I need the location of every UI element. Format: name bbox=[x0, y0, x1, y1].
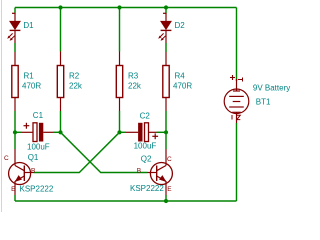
svg-text:C1: C1 bbox=[33, 111, 44, 120]
LED D1 bbox=[7, 13, 20, 43]
svg-text:470R: 470R bbox=[173, 81, 192, 90]
svg-text:BT1: BT1 bbox=[256, 98, 271, 107]
wire battery column bbox=[236, 8, 238, 82]
resistor R1 bbox=[12, 66, 18, 98]
svg-text:KSP2222: KSP2222 bbox=[20, 184, 54, 193]
wire diagonal C1/R2 to Q2 base bbox=[61, 132, 148, 172]
svg-text:C: C bbox=[4, 155, 9, 162]
LED D2 bbox=[158, 13, 171, 43]
svg-text:B: B bbox=[137, 167, 141, 174]
transistor Q1 bbox=[9, 149, 34, 195]
svg-text:R4: R4 bbox=[175, 71, 186, 80]
svg-text:470R: 470R bbox=[22, 81, 41, 90]
node junction bottom Q2 emitter bbox=[164, 199, 168, 203]
node junction C1 right bbox=[58, 130, 62, 134]
svg-text:E: E bbox=[11, 186, 16, 193]
wire R2 column bbox=[60, 8, 62, 52]
resistor R4 bbox=[163, 66, 169, 98]
battery BT1 bbox=[224, 75, 249, 123]
node junction top R3 bbox=[117, 5, 121, 9]
svg-text:R3: R3 bbox=[128, 71, 139, 80]
wire C1 row bbox=[15, 131, 22, 133]
transistor Q2 bbox=[148, 149, 173, 195]
node junction top R2 bbox=[58, 5, 62, 9]
svg-text:R1: R1 bbox=[24, 71, 35, 80]
capacitor C2 bbox=[126, 123, 158, 142]
svg-text:Q2: Q2 bbox=[141, 155, 152, 164]
svg-text:D1: D1 bbox=[23, 21, 34, 30]
svg-text:100uF: 100uF bbox=[134, 142, 157, 151]
node junction C2 left bbox=[117, 130, 121, 134]
svg-text:100uF: 100uF bbox=[27, 142, 50, 151]
wire top rail bbox=[15, 7, 237, 9]
svg-text:R2: R2 bbox=[69, 71, 80, 80]
node junction C2 right bbox=[164, 130, 168, 134]
svg-text:C2: C2 bbox=[140, 112, 151, 121]
svg-text:E: E bbox=[167, 186, 172, 193]
svg-text:9V Battery: 9V Battery bbox=[253, 84, 290, 93]
svg-text:22k: 22k bbox=[69, 81, 83, 90]
wire left column D1-R1-Q1 bbox=[14, 8, 16, 202]
svg-text:D2: D2 bbox=[175, 21, 186, 30]
wire C2 row bbox=[120, 131, 127, 133]
svg-text:22k: 22k bbox=[128, 81, 142, 90]
wire R3 column bbox=[119, 8, 121, 52]
wire bottom rail bbox=[15, 200, 237, 202]
node junction C1 left bbox=[13, 130, 17, 134]
resistor R2 bbox=[57, 66, 63, 98]
wire diagonal C2/R3 to Q1 base bbox=[34, 132, 120, 172]
resistor R3 bbox=[116, 66, 122, 98]
svg-text:Q1: Q1 bbox=[28, 153, 39, 162]
svg-text:B: B bbox=[31, 167, 35, 174]
page border left edge bbox=[1, 0, 3, 212]
wire right column D2-R4-Q2 bbox=[165, 8, 167, 202]
capacitor C1 bbox=[22, 123, 53, 142]
svg-text:C: C bbox=[167, 156, 172, 163]
node junction top D2 bbox=[164, 5, 168, 9]
svg-text:KSP2222: KSP2222 bbox=[130, 184, 164, 193]
